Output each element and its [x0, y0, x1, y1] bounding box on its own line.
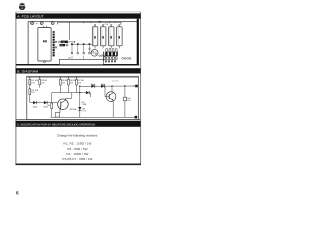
- svg-text:1W: 1W: [41, 81, 44, 84]
- svg-text:1N60: 1N60: [91, 83, 96, 86]
- svg-text:R3 : 68Ω / 5W: R3 : 68Ω / 5W: [67, 147, 87, 151]
- PCB layout frame: [16, 19, 139, 66]
- svg-text:71SB: 71SB: [82, 103, 87, 106]
- emitter resistor box: [55, 113, 60, 118]
- PCB trace bus with pads: [68, 43, 92, 59]
- wire diode rail: [80, 85, 137, 87]
- PCB strip feed wires: [72, 56, 84, 60]
- resistor R7: [76, 78, 85, 93]
- diode D4: [101, 83, 106, 88]
- schematic frame: [27, 76, 139, 119]
- bottom supply rail: [51, 116, 138, 118]
- resistor R1: [29, 78, 39, 85]
- PCB bottom terminal strip: [59, 59, 103, 64]
- svg-text:B. DIAGRAM: B. DIAGRAM: [17, 70, 38, 74]
- PCB connector pad row 2: [105, 60, 116, 62]
- svg-text:AC 153: AC 153: [112, 80, 118, 83]
- svg-text:R5,R6,R7 : 68Ω / 1W: R5,R6,R7 : 68Ω / 1W: [62, 157, 92, 161]
- PCB capacitor can C2: [100, 24, 106, 46]
- transistor Q1: [58, 99, 78, 111]
- resistor R5: [59, 78, 68, 93]
- PCB connector fuse links: [106, 48, 117, 51]
- PCB top harness wire with ticks: [58, 21, 121, 25]
- wire mid horizontal: [52, 92, 86, 94]
- terminal pad plus: [133, 85, 138, 88]
- svg-text:A. PCB LAYOUT: A. PCB LAYOUT: [17, 15, 44, 19]
- zener diode ZD1: [78, 107, 87, 117]
- PCB module IC1 outline: [38, 26, 51, 63]
- resistor R2: [29, 85, 39, 103]
- svg-text:1W: 1W: [78, 81, 81, 84]
- PCB connector side bar: [103, 52, 104, 61]
- svg-text:C05: C05: [62, 41, 65, 44]
- svg-text:6: 6: [16, 190, 19, 196]
- top supply rail: [28, 76, 138, 78]
- wire Q1 collector to mid: [65, 98, 71, 100]
- svg-text:1W: 1W: [62, 81, 65, 84]
- svg-text:1W: 1W: [70, 81, 73, 84]
- junction node dots: [79, 85, 126, 93]
- svg-text:C18: C18: [105, 23, 108, 26]
- svg-text:R4 : 100Ω / 5W: R4 : 100Ω / 5W: [67, 152, 89, 156]
- transistor Q2: [105, 86, 116, 117]
- PCB connector pad row 1: [104, 57, 117, 60]
- PCB capacitor can C3: [109, 24, 115, 46]
- svg-text:R1, R2 : 150Ω / 1W: R1, R2 : 150Ω / 1W: [64, 142, 92, 146]
- svg-text:4.7V: 4.7V: [82, 109, 87, 112]
- PCB mounting hole 2: [40, 21, 43, 24]
- svg-text:1W: 1W: [31, 91, 34, 94]
- page outer box: [16, 12, 142, 164]
- section header bar D: [16, 121, 141, 127]
- resistor R4: [48, 93, 53, 118]
- resistor R8: [123, 86, 130, 117]
- PCB resistor block R-a: [58, 41, 75, 44]
- PCB speaker coil circle: [88, 48, 98, 57]
- PCB pad circles row: [99, 55, 105, 57]
- diode D5: [82, 91, 91, 106]
- wire Q1 collector drop: [71, 93, 73, 99]
- PCB wire to resistor block: [69, 22, 71, 40]
- svg-text:1W: 1W: [127, 99, 130, 102]
- svg-text:1N60: 1N60: [33, 105, 38, 108]
- svg-text:D6: D6: [60, 44, 62, 47]
- PCB capacitor can C1: [92, 24, 98, 46]
- PCB capacitor can C4: [117, 24, 123, 46]
- terminal pad minus: [135, 116, 138, 119]
- PCB connector block: [105, 52, 118, 57]
- section header bar A: [16, 13, 141, 18]
- svg-text:2SC634: 2SC634: [69, 108, 77, 111]
- diode D3: [91, 83, 96, 88]
- svg-text:1N60: 1N60: [101, 83, 106, 86]
- PCB module vertical label VOLKSMANN (letter blobs): [53, 31, 55, 56]
- diode D1: [30, 101, 37, 108]
- PCB solder pad dot: [36, 23, 37, 24]
- resistor R6: [68, 78, 77, 93]
- svg-text:Change the following resistors: Change the following resistors:: [57, 134, 98, 138]
- diode D2: [36, 101, 57, 108]
- PCB left edge pads: [55, 41, 56, 48]
- PCB mounting hole 3: [51, 21, 54, 24]
- PCB resistor block R-b: [60, 44, 68, 47]
- PCB mounting hole 1: [31, 21, 34, 24]
- wire Q1 emitter to resistor box: [59, 109, 61, 113]
- modification instructions text: [57, 134, 98, 161]
- section header bar B: [16, 68, 141, 73]
- svg-text:1W: 1W: [31, 81, 34, 84]
- publisher logo emblem top-left: [19, 3, 25, 10]
- resistor R3: [39, 78, 48, 88]
- svg-text:1N60: 1N60: [43, 105, 48, 108]
- PCB right pad circles: [122, 58, 131, 60]
- svg-text:3S: 3S: [88, 48, 91, 51]
- PCB capacitor bottom pads: [95, 46, 119, 49]
- top rail junction dots: [29, 77, 77, 78]
- wire node vertical left: [79, 86, 81, 107]
- svg-text:D. MODIFICATION FOR 6V NEGATIV: D. MODIFICATION FOR 6V NEGATIVE GROUND O…: [17, 123, 95, 126]
